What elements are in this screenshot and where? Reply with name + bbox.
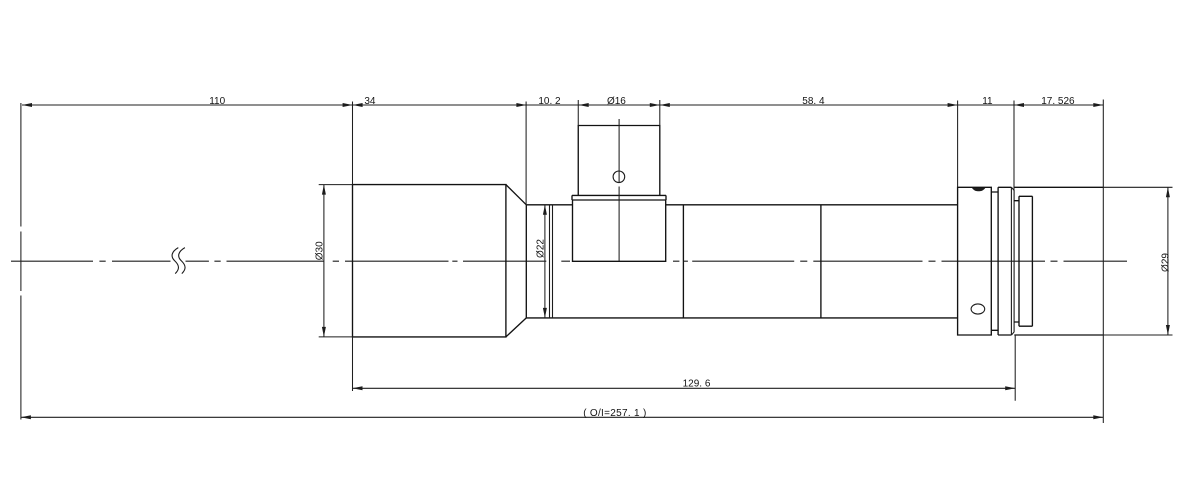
taper end face line — [525, 205, 527, 318]
section divider line 1 — [682, 205, 684, 318]
section divider line 2 — [820, 205, 822, 318]
label O/I — [583, 408, 646, 419]
svg-text:( O/I=257. 1 ): ( O/I=257. 1 ) — [583, 408, 646, 419]
svg-text:10. 2: 10. 2 — [538, 96, 561, 107]
svg-text:34: 34 — [364, 96, 376, 107]
groove ring C — [1019, 196, 1032, 326]
label 34 — [364, 96, 376, 107]
arrow at 1103.3 — [1093, 103, 1103, 107]
svg-text:110: 110 — [209, 96, 225, 107]
dimension Ø22 — [543, 205, 547, 318]
arrow at 578.7 — [579, 103, 589, 107]
groove steps — [1014, 201, 1019, 322]
label Ø16 — [607, 96, 626, 107]
arrows at 659.8 — [650, 103, 670, 107]
arrows at 352.6 — [343, 103, 363, 107]
svg-text:Ø30: Ø30 — [315, 241, 326, 260]
Ø29 cylinder bottom edge — [1014, 334, 1103, 336]
mount flange body — [958, 187, 992, 335]
port centerline — [618, 119, 620, 261]
top dimension chain line — [22, 104, 1103, 106]
extension line port left — [577, 100, 579, 126]
arrow 110 left — [22, 103, 32, 107]
dimension Ø29 — [1103, 187, 1172, 335]
extension line flange front — [957, 101, 959, 188]
lock ring B — [998, 187, 1011, 335]
chamfer washer diagonals — [1012, 187, 1015, 335]
arrow at 1014 — [1014, 103, 1024, 107]
object plane reference line (left) — [20, 103, 22, 420]
taper cone top edge — [506, 185, 526, 205]
Ø22 tube top edge — [526, 204, 957, 206]
extension line at taper end — [525, 102, 527, 205]
label 58.4 — [802, 96, 825, 107]
label Ø29 — [1160, 253, 1171, 272]
svg-text:17. 526: 17. 526 — [1041, 96, 1075, 107]
taper cone bottom edge — [506, 318, 526, 337]
break squiggle on centerline — [172, 248, 185, 274]
joint line pair — [550, 205, 553, 318]
barrel Ø30 outline — [353, 185, 506, 337]
svg-text:58. 4: 58. 4 — [802, 96, 825, 107]
label 129.6 — [683, 379, 711, 390]
dimension 129.6 — [353, 386, 1016, 390]
port tube Ø16 — [578, 126, 660, 196]
port flange plate — [572, 195, 666, 200]
extension line at barrel front — [352, 102, 354, 392]
dimension O/I=257.1 — [21, 415, 1103, 419]
port set-screw hole — [613, 171, 625, 183]
label 17.526 — [1041, 96, 1075, 107]
arrow at 957.6 — [948, 103, 958, 107]
svg-text:Ø22: Ø22 — [536, 239, 547, 258]
svg-text:129. 6: 129. 6 — [683, 379, 711, 390]
svg-text:11: 11 — [982, 96, 993, 107]
Ø22 tube bottom edge — [526, 317, 957, 319]
port boss — [573, 200, 666, 261]
main optical centerline — [11, 260, 1127, 262]
label 10.2 — [538, 96, 561, 107]
arrow at 526.4 — [516, 103, 526, 107]
label 11 — [982, 96, 993, 107]
svg-text:Ø16: Ø16 — [607, 96, 626, 107]
flange top screw notch — [972, 188, 986, 191]
extension line image plane (right end) — [1102, 100, 1104, 424]
Ø29 cylinder top edge — [1014, 186, 1103, 188]
flange side screw hole — [971, 304, 985, 314]
label Ø30 — [315, 241, 326, 260]
extension line port right — [659, 100, 661, 126]
label Ø22 — [536, 239, 547, 258]
spacer ring — [991, 192, 998, 330]
label 110 — [209, 96, 225, 107]
cylinder front face — [1013, 190, 1015, 332]
svg-text:Ø29: Ø29 — [1160, 253, 1171, 272]
dimension Ø30 — [319, 185, 353, 337]
extension line cylinder face — [1014, 101, 1015, 401]
